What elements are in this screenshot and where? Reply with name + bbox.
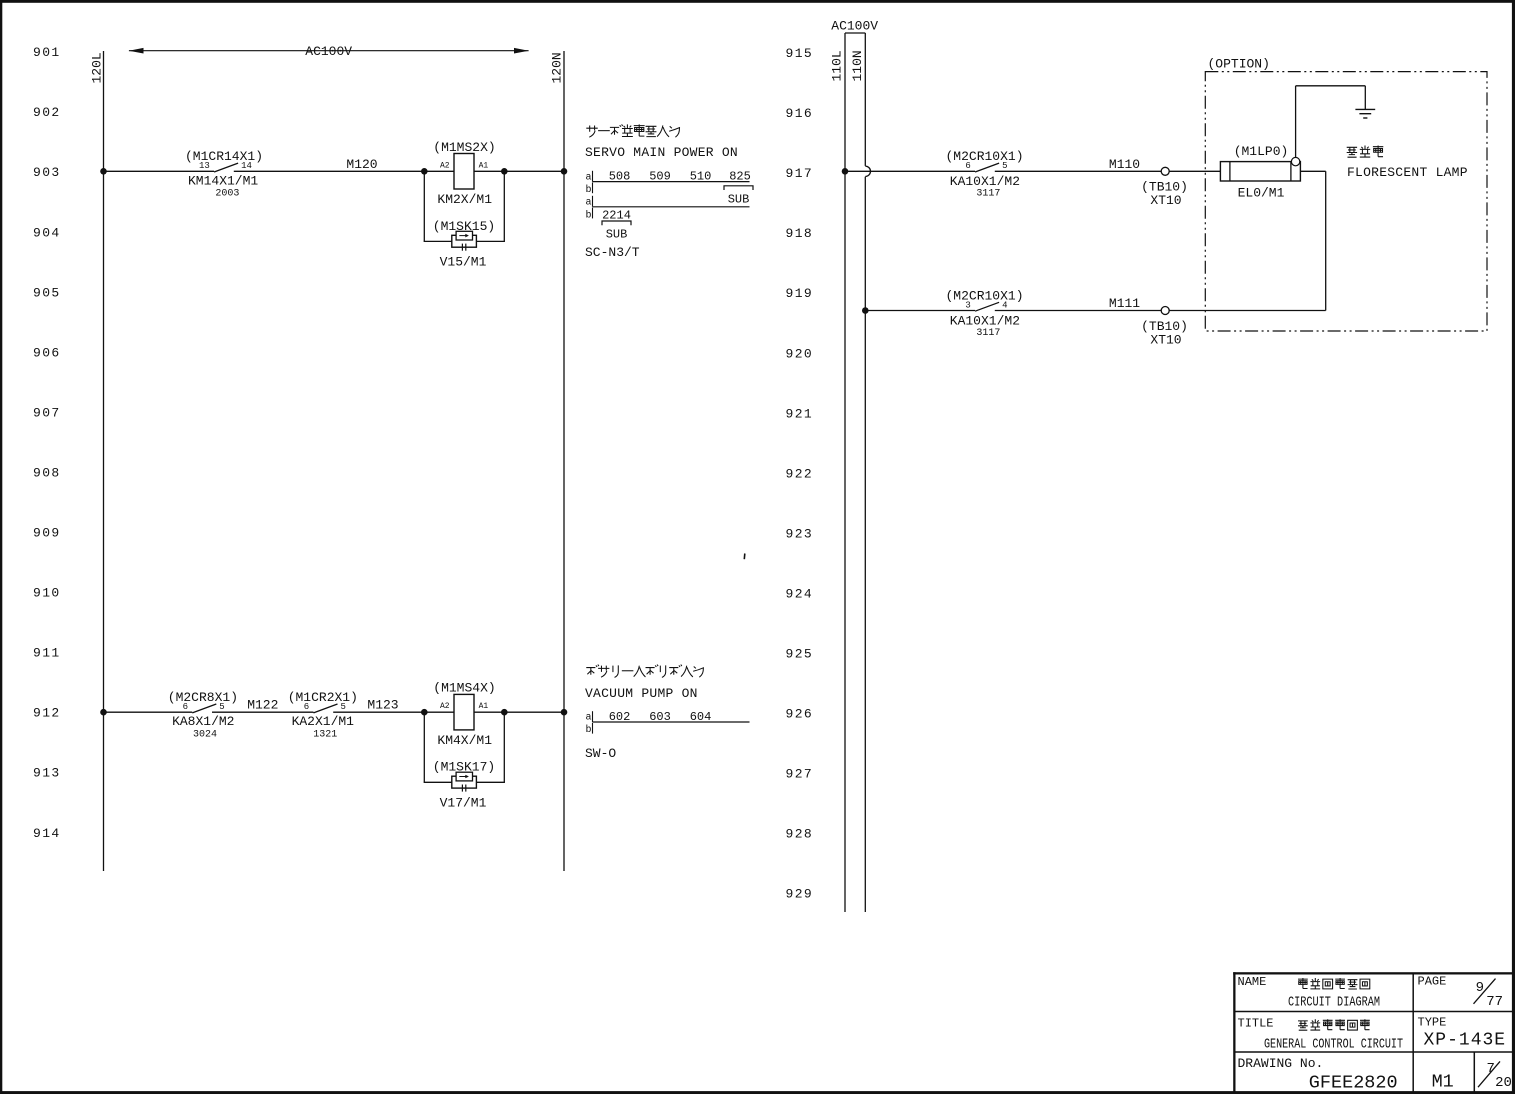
svg-text:b: b — [586, 724, 592, 736]
svg-text:EL0/M1: EL0/M1 — [1238, 186, 1285, 201]
wire 912 left segment — [104, 711, 193, 713]
label (M1MS2X) — [433, 140, 495, 155]
label 1321 — [313, 730, 337, 741]
svg-text:923: 923 — [786, 526, 814, 541]
svg-text:120L: 120L — [90, 52, 105, 83]
svg-text:KM4X/M1: KM4X/M1 — [437, 733, 492, 748]
svg-text:110L: 110L — [830, 50, 845, 81]
text VACUUM PUMP ON — [585, 686, 698, 701]
branch wire right V17 — [476, 712, 505, 782]
label 2003 — [215, 189, 239, 200]
svg-text:925: 925 — [786, 647, 814, 662]
svg-text:KA2X1/M1: KA2X1/M1 — [292, 714, 355, 729]
label (M1LP0) — [1234, 144, 1289, 159]
label 3024 — [193, 730, 217, 741]
label KM14X1/M1 — [188, 173, 258, 188]
svg-text:906: 906 — [33, 345, 61, 360]
label 3117 row917 — [976, 189, 1000, 200]
svg-text:77: 77 — [1486, 994, 1503, 1010]
node dot 912 on 120N — [561, 709, 568, 716]
pin label A2 row912 — [440, 702, 450, 711]
node dot 903 on 120L — [100, 168, 107, 175]
coil KM2X/M1 (M1MS2X) — [454, 154, 474, 190]
svg-text:110N: 110N — [850, 50, 865, 81]
pin label A1 — [479, 161, 489, 170]
svg-text:914: 914 — [33, 826, 61, 841]
JP text general control circuit — [1298, 1019, 1370, 1030]
surge killer V17/M1 (M1SK17) — [452, 772, 477, 791]
svg-text:(M1MS2X): (M1MS2X) — [433, 140, 495, 155]
svg-text:(M2CR10X1): (M2CR10X1) — [945, 288, 1023, 303]
contact M1CR2X1 pins 6-5 — [304, 702, 346, 713]
wire 919 mid segment — [995, 310, 1161, 312]
text XP-143E — [1423, 1030, 1506, 1050]
label (M2CR10X1) row917 — [945, 149, 1023, 164]
svg-text:922: 922 — [786, 466, 814, 481]
JP text servo main power on — [586, 124, 679, 137]
svg-text:(M2CR8X1): (M2CR8X1) — [168, 690, 238, 705]
svg-text:(M1LP0): (M1LP0) — [1234, 144, 1289, 159]
label KA8X1/M2 — [172, 714, 234, 729]
svg-text:DRAWING No.: DRAWING No. — [1238, 1056, 1324, 1071]
terminal XT10 row919 — [1161, 307, 1169, 315]
contact M1CR14X1 pins 13-14 — [199, 161, 252, 172]
wire label M123 — [367, 698, 398, 713]
label (M2CR8X1) — [168, 690, 238, 705]
svg-text:908: 908 — [33, 465, 61, 480]
svg-text:M122: M122 — [247, 698, 278, 713]
node dot 903 on 120N — [561, 168, 568, 175]
svg-text:A1: A1 — [479, 702, 489, 711]
text AC100V right — [831, 19, 878, 34]
label XT10 row919 — [1150, 332, 1181, 347]
svg-text:918: 918 — [786, 226, 814, 241]
wire label M122 — [247, 698, 278, 713]
svg-text:A2: A2 — [440, 702, 450, 711]
svg-text:907: 907 — [33, 405, 61, 420]
svg-text:(OPTION): (OPTION) — [1208, 57, 1270, 72]
svg-text:KA8X1/M2: KA8X1/M2 — [172, 714, 234, 729]
wire 919 right segment — [1169, 310, 1326, 312]
svg-text:902: 902 — [33, 105, 61, 120]
svg-text:SERVO MAIN POWER ON: SERVO MAIN POWER ON — [585, 145, 738, 160]
label EL0/M1 — [1238, 186, 1285, 201]
svg-text:A2: A2 — [440, 161, 450, 170]
bus rail 110N — [864, 33, 866, 912]
svg-text:KA10X1/M2: KA10X1/M2 — [950, 313, 1020, 328]
svg-text:120N: 120N — [550, 52, 565, 83]
svg-text:1321: 1321 — [313, 730, 337, 741]
node dot 912 right of coil — [501, 709, 508, 716]
right line numbers 915-929 — [786, 46, 814, 902]
text NAME — [1238, 975, 1267, 989]
svg-text:903: 903 — [33, 165, 61, 180]
label KA10X1/M2 row919 — [950, 313, 1020, 328]
branch wire left V17 — [424, 712, 452, 782]
svg-text:b: b — [586, 184, 592, 196]
label KA2X1/M1 — [292, 714, 355, 729]
label 120L — [90, 52, 105, 83]
svg-text:PAGE: PAGE — [1418, 975, 1447, 989]
label (M1SK15) — [433, 219, 495, 234]
branch wire left V15 — [424, 171, 452, 241]
node dot 903 left of coil — [421, 168, 428, 175]
svg-text:a: a — [586, 197, 592, 208]
svg-text:924: 924 — [786, 586, 814, 601]
label (TB10) row917 — [1141, 180, 1188, 195]
terminal XT10 row917 — [1161, 167, 1169, 175]
svg-text:3117: 3117 — [976, 189, 1000, 200]
text SW-O — [585, 746, 616, 761]
JP text circuit diagram — [1298, 978, 1370, 989]
svg-text:V17/M1: V17/M1 — [440, 796, 487, 811]
contact M2CR10X1 pins 6-5 — [965, 161, 1007, 172]
text SC-N3/T — [585, 245, 640, 260]
label KA10X1/M2 row917 — [950, 174, 1020, 189]
svg-text:911: 911 — [33, 646, 61, 661]
stray tick mark — [743, 554, 746, 560]
svg-text:KM2X/M1: KM2X/M1 — [437, 192, 492, 207]
svg-text:M120: M120 — [346, 157, 377, 172]
pin label A1 row912 — [479, 702, 489, 711]
text TITLE — [1238, 1016, 1274, 1030]
svg-text:915: 915 — [786, 46, 814, 61]
svg-text:TYPE: TYPE — [1418, 1015, 1447, 1029]
svg-text:927: 927 — [786, 767, 814, 782]
svg-text:GENERAL CONTROL CIRCUIT: GENERAL CONTROL CIRCUIT — [1264, 1036, 1403, 1052]
label V17/M1 — [440, 796, 487, 811]
text CIRCUIT DIAGRAM — [1288, 994, 1380, 1010]
option dashed box — [1205, 72, 1487, 331]
label 3117 row919 — [976, 328, 1000, 339]
AC100V bracket — [845, 32, 865, 34]
svg-text:2003: 2003 — [215, 189, 239, 200]
svg-text:b: b — [586, 209, 592, 221]
surge killer V15/M1 (M1SK15) — [452, 231, 477, 250]
svg-text:920: 920 — [786, 346, 814, 361]
wire 903 mid segment — [234, 170, 454, 172]
svg-text:KA10X1/M2: KA10X1/M2 — [950, 174, 1020, 189]
svg-text:SUB: SUB — [728, 193, 750, 207]
contact M2CR10X1 pins 3-4 — [965, 300, 1007, 311]
svg-text:(M1CR2X1): (M1CR2X1) — [288, 690, 358, 705]
svg-text:910: 910 — [33, 586, 61, 601]
text M1 — [1432, 1072, 1454, 1093]
svg-text:(M1MS4X): (M1MS4X) — [433, 681, 495, 696]
svg-text:904: 904 — [33, 225, 61, 240]
svg-text:XT10: XT10 — [1150, 332, 1181, 347]
svg-text:VACUUM PUMP ON: VACUUM PUMP ON — [585, 686, 698, 701]
cross reference table 903 — [586, 170, 754, 242]
svg-text:A1: A1 — [479, 161, 489, 170]
text DRAWING No. — [1238, 1056, 1324, 1071]
label (TB10) row919 — [1141, 319, 1188, 334]
contact M2CR8X1 pins 6-5 — [183, 702, 225, 713]
wire label M110 — [1109, 157, 1140, 172]
label V15/M1 — [440, 255, 487, 270]
svg-text:CIRCUIT DIAGRAM: CIRCUIT DIAGRAM — [1288, 994, 1380, 1010]
svg-text:926: 926 — [786, 707, 814, 722]
svg-text:XP-143E: XP-143E — [1423, 1030, 1506, 1050]
node dot 919 on 110N — [862, 307, 869, 314]
svg-text:KM14X1/M1: KM14X1/M1 — [188, 173, 258, 188]
svg-text:M1: M1 — [1432, 1072, 1454, 1093]
svg-text:M111: M111 — [1109, 296, 1140, 311]
node dot 912 left of coil — [421, 709, 428, 716]
text SERVO MAIN POWER ON — [585, 145, 738, 160]
wire 919 left segment — [865, 310, 975, 312]
node dot 903 right of coil — [501, 168, 508, 175]
svg-text:a: a — [586, 713, 592, 724]
wire label M120 — [346, 157, 377, 172]
bus rail 120N — [563, 51, 565, 871]
text TYPE — [1418, 1015, 1447, 1029]
svg-text:TITLE: TITLE — [1238, 1016, 1274, 1030]
bus rail 110L — [844, 33, 846, 912]
svg-text:901: 901 — [33, 45, 61, 60]
svg-text:AC100V: AC100V — [305, 44, 352, 59]
pin label A2 — [440, 161, 450, 170]
svg-text:AC100V: AC100V — [831, 19, 878, 34]
label (M1SK17) — [433, 760, 495, 775]
wire 903 left segment — [104, 170, 215, 172]
svg-text:912: 912 — [33, 706, 61, 721]
svg-text:FLORESCENT LAMP: FLORESCENT LAMP — [1347, 165, 1468, 180]
svg-text:NAME: NAME — [1238, 975, 1267, 989]
fluorescent lamp EL0/M1 (M1LP0) — [1220, 162, 1300, 181]
svg-text:a: a — [586, 172, 592, 183]
svg-text:SC-N3/T: SC-N3/T — [585, 245, 640, 260]
wire 912 right segment — [474, 711, 564, 713]
label 120N — [550, 52, 565, 83]
svg-text:917: 917 — [786, 166, 814, 181]
svg-text:XT10: XT10 — [1150, 193, 1181, 208]
svg-text:SW-O: SW-O — [585, 746, 616, 761]
label 110N — [850, 50, 865, 81]
svg-text:M110: M110 — [1109, 157, 1140, 172]
branch wire right V15 — [476, 171, 505, 241]
svg-text:919: 919 — [786, 286, 814, 301]
wire label M111 — [1109, 296, 1140, 311]
AC100V dimension arrow — [129, 44, 529, 59]
text PAGE — [1418, 975, 1447, 989]
node dot 917 on 110L — [842, 168, 849, 175]
svg-text:SUB: SUB — [606, 228, 628, 242]
label KM4X/M1 — [437, 733, 492, 748]
JP text fluorescent lamp — [1347, 146, 1384, 158]
svg-text:GFEE2820: GFEE2820 — [1309, 1072, 1398, 1093]
label (M2CR10X1) row919 — [945, 288, 1023, 303]
svg-text:928: 928 — [786, 827, 814, 842]
wire 917 mid segment — [995, 170, 1161, 172]
node dot 912 on 120L — [100, 709, 107, 716]
page fraction 9/77 — [1474, 979, 1504, 1010]
svg-text:913: 913 — [33, 766, 61, 781]
wire 917 left segment — [845, 170, 975, 172]
svg-text:M123: M123 — [367, 698, 398, 713]
svg-text:929: 929 — [786, 887, 814, 902]
sheet fraction 7/20 — [1478, 1061, 1512, 1091]
JP text vacuum pump on — [586, 665, 703, 678]
text FLORESCENT LAMP — [1347, 165, 1468, 180]
left line numbers 901-914 — [33, 45, 61, 841]
svg-text:3117: 3117 — [976, 328, 1000, 339]
wire 912 mid2 segment — [333, 711, 454, 713]
cross reference table 912 — [586, 710, 750, 736]
wire lamp to ground — [1296, 86, 1366, 158]
label (OPTION) — [1208, 57, 1270, 72]
svg-text:V15/M1: V15/M1 — [440, 255, 487, 270]
wire 912 mid1 segment — [212, 711, 314, 713]
wire hop over 110N — [865, 166, 870, 176]
label XT10 row917 — [1150, 193, 1181, 208]
svg-text:(M2CR10X1): (M2CR10X1) — [945, 149, 1023, 164]
coil KM4X/M1 (M1MS4X) — [454, 694, 474, 730]
svg-text:909: 909 — [33, 526, 61, 541]
text GENERAL CONTROL CIRCUIT — [1264, 1036, 1403, 1052]
label (M1MS4X) — [433, 681, 495, 696]
label 110L — [830, 50, 845, 81]
label (M1CR14X1) — [185, 149, 263, 164]
lamp terminal circle — [1291, 157, 1299, 165]
svg-text:916: 916 — [786, 106, 814, 121]
label (M1CR2X1) — [288, 690, 358, 705]
text GFEE2820 — [1309, 1072, 1398, 1093]
title block frame — [1233, 972, 1512, 1092]
wire 903 right segment — [474, 170, 564, 172]
svg-text:921: 921 — [786, 406, 814, 421]
bus rail 120L — [103, 51, 105, 871]
wire 917 into option box — [1169, 170, 1220, 172]
svg-text:20: 20 — [1495, 1075, 1512, 1091]
svg-text:3024: 3024 — [193, 730, 217, 741]
ground symbol — [1355, 109, 1375, 118]
svg-text:905: 905 — [33, 285, 61, 300]
wire lamp right segment — [1300, 171, 1325, 310]
svg-text:(M1CR14X1): (M1CR14X1) — [185, 149, 263, 164]
label KM2X/M1 — [437, 192, 492, 207]
